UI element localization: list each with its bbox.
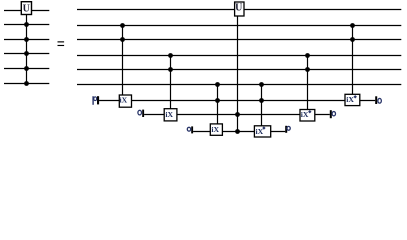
svg-text:iX: iX — [211, 125, 219, 134]
svg-text:U: U — [23, 4, 30, 15]
svg-text:iX: iX — [256, 127, 264, 136]
svg-text:iX: iX — [301, 110, 309, 119]
svg-text:U: U — [235, 3, 242, 14]
svg-text:iX: iX — [119, 96, 127, 105]
svg-text:iX: iX — [346, 95, 354, 104]
svg-text:iX: iX — [165, 110, 173, 119]
